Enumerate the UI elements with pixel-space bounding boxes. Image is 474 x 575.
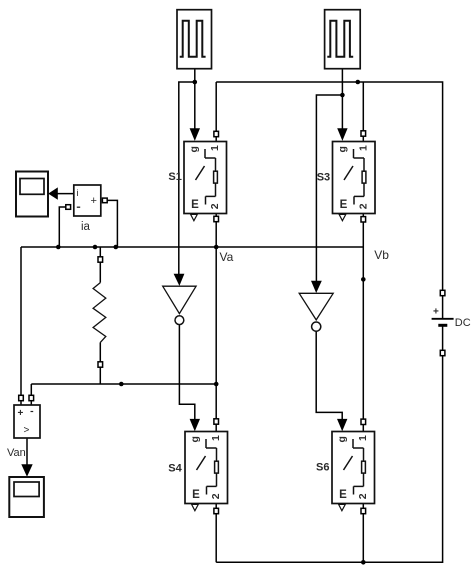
pad ammeter plus — [102, 198, 107, 203]
gate arrow into S4 — [190, 419, 200, 431]
wire: left leg down to voltmeter plus — [20, 247, 22, 405]
wire: pulse generator P1 output down to S1 gate — [194, 69, 196, 129]
wire: NOT2 output to S6 gate — [316, 331, 342, 419]
NOT gate U1 — [163, 286, 196, 324]
IGBT S3 — [333, 142, 376, 221]
NOT gate U1 input arrow — [174, 274, 185, 286]
IGBT S1 — [184, 142, 227, 221]
junction top bus near S3 — [356, 80, 361, 85]
junction node Va at load rail — [214, 245, 219, 250]
wire: resistor top connection — [99, 247, 101, 283]
DC voltage source — [432, 307, 454, 326]
svg-text:ia: ia — [81, 221, 91, 233]
svg-text:S3: S3 — [317, 172, 330, 184]
wire: S3 collector drop — [362, 82, 364, 142]
junction node Va at neutral rail — [214, 382, 219, 387]
junction P1 output — [193, 80, 198, 85]
svg-text:i: i — [77, 188, 79, 199]
pad S6 port 1 — [361, 419, 366, 424]
pad S4 port 2 — [214, 508, 219, 513]
pad resistor bottom — [98, 362, 103, 367]
wire: neutral rail y=384 to node Va — [31, 383, 216, 385]
wire: resistor bottom connection — [99, 342, 101, 384]
wire: branch left from P2 output node — [316, 95, 342, 282]
resistor R (series RLC branch) — [93, 283, 106, 343]
wire: load rail y=247 — [21, 246, 363, 248]
pad S1 port 2 — [214, 216, 219, 221]
pad S4 port 1 — [214, 419, 219, 424]
pad voltmeter plus — [19, 395, 24, 400]
wire: top DC bus from S1 collector to DC source — [216, 82, 442, 318]
pulse generator P1 — [177, 10, 212, 69]
svg-text:DC: DC — [455, 317, 471, 329]
arrow into Scope2 — [21, 464, 32, 477]
pad DC plus — [440, 290, 445, 295]
wire: voltmeter output to scope2 — [26, 438, 28, 465]
wire: voltmeter minus leg up to neutral rail — [30, 384, 32, 405]
svg-text:+: + — [91, 195, 97, 207]
voltage measurement Van block — [14, 405, 40, 438]
junction neutral rail — [119, 382, 124, 387]
svg-text:Vb: Vb — [374, 248, 389, 262]
pad ammeter minus — [66, 205, 71, 210]
svg-text:+: + — [18, 408, 24, 419]
gate arrow into S1 — [190, 128, 200, 141]
scope Scope2 — [9, 477, 44, 517]
pad S3 port 1 — [361, 131, 366, 136]
junction node Vb — [361, 277, 366, 282]
junction load rail at resistor — [93, 245, 98, 250]
wire: DC source minus plate to bottom — [442, 325, 444, 356]
pad resistor top — [98, 257, 103, 262]
svg-text:>: > — [24, 425, 30, 436]
wire: ammeter minus down to load rail — [59, 207, 67, 247]
pulse generator P2 — [325, 10, 361, 69]
pad voltmeter minus — [29, 395, 34, 400]
svg-text:Va: Va — [220, 250, 234, 264]
svg-text:S1: S1 — [168, 171, 181, 183]
wire: ammeter plus down to load rail — [103, 200, 117, 247]
wire: ammeter output to scope1 — [56, 193, 74, 195]
wire: NOT1 output to S4 gate — [179, 325, 194, 420]
pad DC minus — [440, 350, 445, 355]
wire: node Vb vertical S3 emitter to S6 collector — [362, 214, 364, 432]
wire: branch left from P1 output node — [179, 82, 195, 275]
gate arrow into S6 — [337, 419, 347, 431]
arrow into Scope1 — [48, 187, 58, 199]
wire: node Va vertical S1 emitter to S4 collector — [215, 214, 217, 432]
svg-text:+: + — [433, 307, 439, 318]
wire: pulse generator P2 output down to S3 gate — [341, 69, 343, 130]
svg-text:Van: Van — [7, 447, 26, 459]
IGBT S6 — [332, 432, 375, 511]
scope Scope1 — [16, 172, 48, 217]
junction load rail at ammeter plus — [114, 245, 119, 250]
svg-text:S4: S4 — [168, 463, 182, 475]
svg-text:S6: S6 — [316, 462, 329, 474]
current measurement ia — [74, 185, 101, 216]
junction P2 output — [340, 93, 345, 98]
junction bottom bus at S6 — [361, 560, 366, 565]
NOT gate U2 — [299, 293, 333, 331]
wire: bottom DC bus — [216, 356, 442, 562]
wire: S6 emitter down to bottom bus — [362, 504, 364, 563]
wire: S1 collector drop — [215, 82, 217, 142]
IGBT S4 — [185, 432, 228, 511]
wire: S4 emitter down to bottom bus — [215, 504, 217, 563]
pad S1 port 1 — [214, 131, 219, 136]
junction load rail at ammeter minus — [56, 245, 61, 250]
gate arrow into S3 — [337, 128, 347, 141]
NOT gate U2 input arrow — [311, 281, 322, 293]
pad S3 port 2 — [361, 217, 366, 222]
pad S6 port 2 — [361, 508, 366, 513]
